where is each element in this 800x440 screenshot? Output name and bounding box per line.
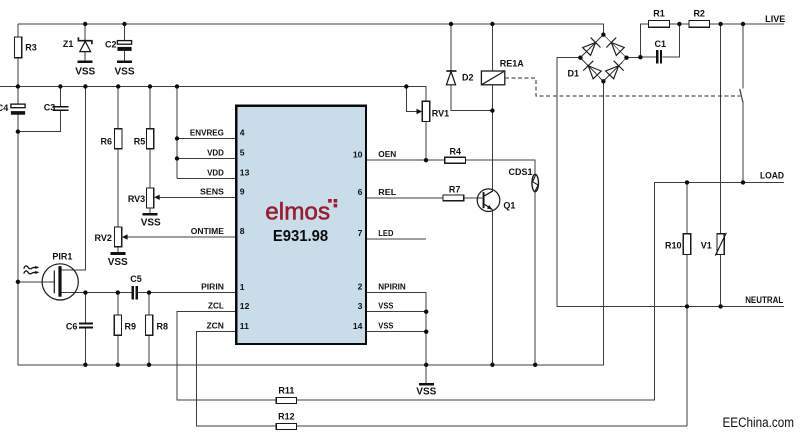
svg-text:RE1A: RE1A	[500, 58, 525, 68]
svg-text:11: 11	[240, 321, 249, 331]
svg-text:ZCN: ZCN	[207, 321, 224, 331]
svg-text:LIVE: LIVE	[765, 14, 785, 24]
svg-text:C1: C1	[655, 39, 667, 49]
svg-text:C6: C6	[66, 322, 78, 332]
svg-text:RV3: RV3	[128, 194, 145, 204]
svg-text:2: 2	[358, 282, 363, 292]
svg-text:R5: R5	[134, 137, 146, 147]
svg-text:VSS: VSS	[378, 321, 393, 331]
svg-text:EEChina.com: EEChina.com	[723, 415, 795, 431]
svg-text:VSS: VSS	[108, 257, 128, 268]
svg-text:REL: REL	[378, 187, 396, 197]
svg-text:D2: D2	[462, 73, 474, 83]
svg-text:VSS: VSS	[141, 217, 161, 228]
svg-text:LED: LED	[378, 228, 393, 238]
svg-text:7: 7	[358, 228, 363, 238]
svg-text:C5: C5	[130, 274, 142, 284]
svg-text:5: 5	[240, 148, 245, 158]
svg-text:9: 9	[240, 187, 245, 197]
svg-text:V1: V1	[701, 240, 712, 250]
svg-text:VDD: VDD	[207, 148, 224, 158]
svg-text:RV2: RV2	[95, 233, 112, 243]
svg-text:Q1: Q1	[503, 201, 515, 211]
svg-text:R1: R1	[653, 9, 665, 19]
svg-text:R4: R4	[450, 146, 462, 156]
svg-text:RV1: RV1	[432, 109, 449, 119]
svg-text:10: 10	[353, 149, 363, 159]
svg-text:LOAD: LOAD	[760, 170, 784, 180]
svg-text:R2: R2	[693, 9, 705, 19]
svg-text:NPIRIN: NPIRIN	[378, 282, 406, 292]
svg-text:6: 6	[358, 187, 363, 197]
svg-text:R11: R11	[278, 386, 294, 396]
svg-text:VSS: VSS	[75, 67, 95, 78]
svg-text:ZCL: ZCL	[208, 301, 224, 311]
svg-text:ONTIME: ONTIME	[191, 226, 224, 236]
svg-text:VSS: VSS	[114, 67, 134, 78]
svg-text:E931.98: E931.98	[273, 228, 328, 245]
svg-text:ENVREG: ENVREG	[190, 128, 224, 138]
svg-text:C3: C3	[44, 103, 56, 113]
svg-text:R7: R7	[449, 185, 461, 195]
svg-text:R3: R3	[25, 43, 37, 53]
svg-text:R12: R12	[278, 412, 295, 422]
svg-text:D1: D1	[568, 68, 580, 78]
svg-text:R8: R8	[157, 322, 169, 332]
svg-text:SENS: SENS	[200, 186, 224, 196]
svg-text:3: 3	[358, 301, 363, 311]
svg-text:R6: R6	[100, 137, 112, 147]
svg-text:VSS: VSS	[416, 387, 436, 398]
svg-text:R9: R9	[125, 322, 137, 332]
svg-text:NEUTRAL: NEUTRAL	[745, 295, 784, 305]
svg-text:VDD: VDD	[207, 167, 224, 177]
svg-text:R10: R10	[665, 240, 682, 250]
svg-text:1: 1	[240, 282, 245, 292]
svg-text:VSS: VSS	[378, 301, 393, 311]
svg-text:14: 14	[353, 321, 363, 331]
svg-text:Z1: Z1	[63, 39, 74, 49]
svg-text:4: 4	[240, 128, 245, 138]
svg-text:C4: C4	[0, 103, 8, 113]
svg-text:8: 8	[240, 226, 245, 236]
svg-text:PIR1: PIR1	[52, 251, 72, 261]
svg-text:PIRIN: PIRIN	[201, 282, 224, 292]
svg-text:C2: C2	[105, 40, 117, 50]
svg-text:12: 12	[240, 301, 250, 311]
svg-text:13: 13	[240, 168, 250, 178]
svg-text:OEN: OEN	[378, 149, 396, 159]
svg-text:CDS1: CDS1	[509, 167, 533, 177]
svg-text:elmos: elmos	[265, 199, 330, 226]
